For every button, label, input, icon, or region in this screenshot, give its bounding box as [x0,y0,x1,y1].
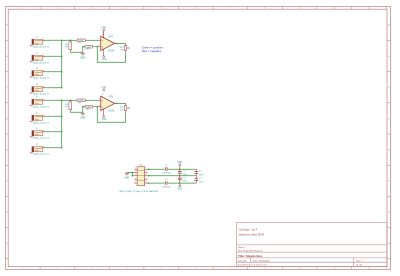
svg-text:Audio-Jack-3_G: Audio-Jack-3_G [33,61,49,64]
potentiometer RV1 10K [120,43,131,52]
title block size date rev row [238,259,364,262]
svg-text:Audio-Jack-3_G: Audio-Jack-3_G [33,105,49,108]
connector J4 audio jack [32,84,49,96]
svg-text:VSS: VSS [177,188,182,190]
connector J6 audio jack [32,113,49,125]
svg-text:2: 2 [99,45,100,47]
svg-text:R?: R? [87,109,91,111]
wire op-amp output to potentiometer (stage 1) [117,42,126,44]
svg-text:1: 1 [43,114,44,116]
pin 10 right of U3 [145,181,148,183]
title block comment text [239,229,265,236]
svg-text:R?: R? [78,43,82,45]
wire vertical bus group 1 (J1-J4) [61,40,63,87]
svg-text:Audio-Jack-3_G: Audio-Jack-3_G [33,121,49,124]
junction feedback at - input (stage 1) [97,46,99,48]
svg-text:2: 2 [135,171,136,173]
svg-text:D: D [388,118,390,120]
capacitor C5 output (VDD rail) [194,169,204,176]
svg-text:Sheet: /: Sheet: / [238,246,246,249]
connector J1 audio jack [32,37,49,49]
svg-text:1: 1 [43,54,44,56]
wire shunt resistor to GND node (stage 2) [70,111,83,112]
wire R13 to op-amp - input [94,46,99,48]
junction at U3 pin10 [148,182,150,184]
wire C1 to VDD node [168,168,197,170]
svg-text:Audio-Jack-3_G: Audio-Jack-3_G [33,45,49,48]
pin 1 output of U?B [115,101,117,103]
wire feedback loop pot to - input (stage 1) [97,47,125,63]
wire from J1 to bus [44,39,62,41]
svg-text:R?: R? [78,103,82,105]
junction on bus 1 at J3 [61,71,63,73]
junction at shunt resistor top (stage 1) [70,40,72,42]
pin 7 right of U3 [145,171,148,173]
potentiometer RV2 10K [120,103,131,112]
wire junction down to GND (stage 1) [82,47,84,54]
connector J8 audio jack [32,144,49,156]
pin 4 V- of U?A [102,47,104,55]
svg-text:A: A [388,24,390,27]
pin 1 (tip) of J1 [43,38,45,41]
power symbol VDD (stage 2) [101,31,106,91]
pin S (sleeve) of J1 [30,44,32,46]
pin 2 - input of U?A [98,45,100,47]
svg-text:2: 2 [130,48,131,50]
svg-text:J?: J? [36,53,39,55]
title block kicad id row [238,264,363,267]
junction mid rail at C2 [179,175,181,177]
junction at U3 pin8 [148,175,150,177]
svg-text:R?: R? [65,47,69,49]
svg-text:VSS: VSS [102,59,107,61]
resistor R13 gain (horizontal, minus rail) [83,45,94,51]
connector J3 audio jack [32,68,49,80]
svg-text:1: 1 [43,70,44,72]
power symbol VDD (charge pump) [177,162,182,169]
ground symbol GND (stage 2) [80,113,85,119]
junction on bus 1 at J4 [61,87,63,89]
svg-text:10K: 10K [120,49,124,51]
wire op-amp output to potentiometer (stage 2) [117,102,126,104]
wire shunt resistor to GND node (stage 1) [70,51,83,52]
pin 8 V+ of U?A [102,34,104,38]
svg-text:B: B [388,56,390,58]
pin 8 V+ of U?B [102,34,104,96]
svg-text:J?: J? [36,37,39,39]
wire U3 pin8 mid rail [148,175,197,177]
pin 3 + input of U?A [98,39,100,41]
svg-text:CPA_ICL7660_LTC1044_LT1054_MAX: CPA_ICL7660_LTC1044_LT1054_MAX1044 [119,190,159,193]
capacitor C2 polarized (VDD to mid) [178,169,188,176]
svg-text:9: 9 [146,178,147,180]
pin 1 (tip) of J7 [43,130,45,133]
pin 1 (tip) of J8 [43,146,45,149]
svg-text:KiCad E.D.A. eeschema 5.1.2: KiCad E.D.A. eeschema 5.1.2 [238,264,268,267]
junction at output (stage 2) [116,103,118,105]
svg-text:U?A: U?A [108,35,113,38]
svg-text:3: 3 [99,39,100,41]
capacitor C6 output (VSS rail) [194,176,204,184]
power symbol VDD (stage 1) [101,28,106,34]
svg-text:R?: R? [87,49,91,51]
svg-text:Audio-Jack-3_G: Audio-Jack-3_G [33,93,49,96]
wire from J5 to bus [44,99,62,101]
svg-text:Co-Design : Joe F.: Co-Design : Joe F. [239,229,258,231]
svg-text:J?: J? [36,84,39,86]
connector J2 audio jack [32,53,49,65]
junction on bus 2 at J6 [61,116,63,118]
svg-text:F: F [388,181,390,183]
svg-text:1: 1 [43,98,44,100]
junction feedback at - input (stage 2) [97,106,99,108]
svg-text:C?: C? [199,171,202,173]
svg-text:Red = negative: Red = negative [142,49,162,53]
pin 4 V- of U?B [102,107,104,115]
junction at gain resistor node (stage 2) [82,106,84,108]
pin 3 left of U3 [134,174,137,176]
wire from J7 to bus [44,131,62,133]
pin S (sleeve) of J5 [30,104,32,106]
svg-text:Audio-Jack-3_G: Audio-Jack-3_G [33,137,49,140]
junction at shunt resistor top (stage 2) [70,100,72,102]
svg-text:J?: J? [36,113,39,115]
pin 1 (tip) of J2 [43,54,45,57]
pin 1 (tip) of J6 [43,114,45,117]
pin 5 left of U3 [134,181,137,183]
junction at U3 pin6 [148,169,150,171]
svg-text:1: 1 [43,38,44,40]
connector J7 audio jack [32,128,49,140]
resistor R12 series 100K (horizontal, top rail) [76,39,87,45]
pin S (sleeve) of J4 [30,92,32,94]
pin S (sleeve) of J8 [30,152,32,154]
svg-text:8: 8 [102,34,103,36]
pin S (sleeve) of J3 [30,76,32,78]
wire vertical bus group 2 (J5-J8) [61,100,63,147]
wire U3 pin10 to flying cap C4 [148,182,165,184]
svg-text:3: 3 [135,174,136,176]
svg-text:J?: J? [36,68,39,70]
svg-text:3: 3 [99,99,100,101]
wire R12 to op-amp + input [86,39,98,41]
svg-text:10K: 10K [120,109,124,111]
svg-text:H: H [388,243,390,245]
svg-text:VSS: VSS [102,119,107,121]
resistor R22 series 100K (horizontal, top rail) [76,99,87,105]
resistor R23 gain (horizontal, minus rail) [83,105,94,111]
wire from J3 to bus [44,71,62,73]
pin 1 output of U?A [115,41,117,43]
svg-text:H: H [6,243,8,245]
svg-text:6: 6 [146,168,147,170]
svg-text:C?: C? [199,178,202,180]
svg-text:E: E [388,150,390,152]
power symbol VSS (charge pump) [177,183,182,190]
pin 1 left of U3 [134,168,137,170]
wire R23 to op-amp - input [94,106,99,108]
junction on bus 2 at J8 [61,147,63,149]
pin S (sleeve) of J2 [30,60,32,62]
svg-text:C: C [6,87,8,89]
svg-text:C?: C? [165,179,169,181]
svg-text:TL072: TL072 [108,50,115,52]
title block frame [236,223,387,267]
ground symbol GND (charge pump) [124,173,129,180]
svg-text:1: 1 [43,146,44,148]
svg-text:J?: J? [36,128,39,130]
svg-text:Title: Simple Bus: Title: Simple Bus [238,254,263,258]
svg-text:4: 4 [102,107,103,109]
pin 9 right of U3 [145,178,148,180]
svg-text:D: D [6,118,8,120]
resistor R21 shunt 1M (vertical) [65,100,72,111]
pin 2 - input of U?B [98,105,100,107]
svg-text:100uF/25: 100uF/25 [162,186,171,188]
svg-text:Inspired by Otklon DIY64: Inspired by Otklon DIY64 [239,234,265,237]
op-amp U?B TL072 [101,96,115,112]
svg-text:1: 1 [43,130,44,132]
svg-text:Size: A4: Size: A4 [238,259,247,262]
power symbol VSS (stage 2) [102,116,107,121]
junction U3 left pin 3 [132,175,134,177]
svg-text:10uF: 10uF [199,181,204,183]
svg-text:8: 8 [102,94,103,96]
wire from J2 to bus [44,55,62,57]
power symbol VSS (stage 1) [102,56,107,61]
wire from J8 to bus [44,147,62,149]
svg-text:U?B: U?B [108,96,113,98]
svg-text:4: 4 [102,47,103,49]
connector J5 audio jack [32,97,49,109]
svg-text:Rev: 1: Rev: 1 [356,260,363,262]
wire bus tap to R shunt (stage 1) [62,39,68,41]
wire feedback loop pot to - input (stage 2) [97,107,125,123]
pin S (sleeve) of J7 [30,136,32,138]
junction on bus 2 at J5 [61,100,63,102]
svg-text:GND: GND [80,117,85,119]
svg-text:R?: R? [65,107,69,109]
wire from J4 to bus [44,87,62,89]
svg-text:C?: C? [165,165,169,167]
svg-text:1: 1 [135,168,136,170]
wire bus tap to R shunt (stage 2) [62,99,68,101]
junction U3 left pin 2 [132,172,134,174]
capacitor C4 flying (series, bottom) [162,179,171,188]
svg-text:2: 2 [130,108,131,110]
svg-text:4: 4 [135,178,136,180]
junction on bus 2 at J7 [61,131,63,133]
svg-text:5: 5 [135,181,136,183]
svg-text:J?: J? [36,144,39,146]
pin S (sleeve) of J6 [30,120,32,122]
svg-text:File: Simple Bus Real.sch: File: Simple Bus Real.sch [238,250,264,252]
junction on bus 1 at J2 [61,56,63,58]
svg-text:10: 10 [145,181,147,183]
svg-text:GND: GND [124,178,129,180]
svg-text:J?: J? [36,97,39,99]
op-amp U?A TL072 [101,35,115,52]
svg-text:7: 7 [146,171,147,173]
svg-text:C: C [388,87,390,89]
pin 1 (tip) of J5 [43,98,45,101]
pin 6 right of U3 [145,168,148,170]
svg-text:Date: 31/05/2019: Date: 31/05/2019 [253,259,271,262]
junction at output (stage 1) [116,43,118,45]
wire U3 left pins to ground [127,173,135,176]
svg-text:TL072: TL072 [108,110,115,112]
junction at gain resistor node (stage 1) [82,46,84,48]
wire junction down to GND (stage 2) [82,107,84,114]
wire C4 to output caps [168,182,197,184]
wire from J6 to bus [44,115,62,117]
IC U3 charge pump [119,165,159,193]
svg-text:Id: 1/1: Id: 1/1 [356,265,363,267]
svg-text:Audio-Jack-3_G: Audio-Jack-3_G [33,77,49,80]
pin 4 left of U3 [134,178,137,180]
svg-text:10uF: 10uF [182,181,187,183]
svg-text:G: G [388,212,390,214]
capacitor C1 flying (series, top) [162,165,171,174]
resistor R11 shunt 1M (vertical) [65,40,72,51]
pin 2 left of U3 [134,171,137,173]
svg-text:2: 2 [99,105,100,107]
svg-text:10uF: 10uF [199,174,204,176]
wire U3 pin6 to flying cap C1 [148,168,165,170]
svg-text:G: G [6,212,8,214]
junction VSS node [179,182,181,184]
pin 1 (tip) of J4 [43,86,45,89]
ground symbol GND (stage 1) [80,53,85,59]
svg-text:8: 8 [146,174,147,176]
svg-text:GND: GND [80,57,85,59]
pin 1 (tip) of J3 [43,70,45,73]
wire R22 to op-amp + input [86,99,98,101]
svg-text:1: 1 [43,86,44,88]
junction on bus 1 at J1 [61,40,63,42]
svg-text:Audio-Jack-3_G: Audio-Jack-3_G [33,153,49,156]
junction VDD node [179,169,181,171]
pin 8 right of U3 [145,174,148,176]
pin 3 + input of U?B [98,99,100,101]
capacitor C3 polarized (mid to VSS) [178,176,188,183]
title block sheet text [238,246,264,253]
svg-text:100uF/25: 100uF/25 [162,172,171,174]
